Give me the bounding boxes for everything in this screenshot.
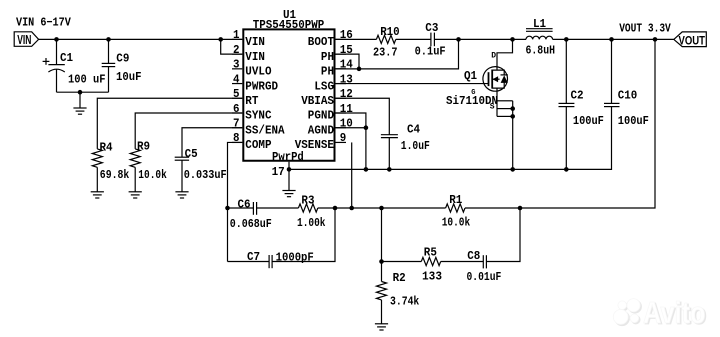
svg-text:R5: R5 [424,245,437,259]
svg-text:100 uF: 100 uF [68,72,106,86]
svg-text:AGND: AGND [308,123,334,137]
svg-text:100uF: 100uF [573,114,604,128]
svg-text:COMP: COMP [245,138,271,152]
svg-text:9: 9 [340,131,347,145]
svg-text:10uF: 10uF [116,70,142,84]
svg-text:1: 1 [233,28,240,42]
svg-text:VIN: VIN [245,50,265,64]
svg-text:C10: C10 [618,89,638,103]
svg-text:5: 5 [233,87,240,101]
svg-text:C6: C6 [238,197,251,211]
svg-text:R9: R9 [137,140,150,154]
svg-text:6.8uH: 6.8uH [526,44,556,58]
svg-text:R4: R4 [100,141,113,155]
svg-text:R10: R10 [380,25,400,39]
svg-text:C2: C2 [571,89,584,103]
svg-text:1.0uF: 1.0uF [401,139,430,153]
svg-text:1000pF: 1000pF [276,250,314,264]
svg-text:PH: PH [321,50,334,64]
svg-text:3: 3 [233,58,240,72]
svg-text:R2: R2 [393,271,406,285]
svg-text:PGND: PGND [308,109,334,123]
svg-text:23.7: 23.7 [373,45,398,59]
svg-text:D: D [491,52,496,61]
svg-text:10.0k: 10.0k [442,215,471,229]
svg-text:R1: R1 [449,193,462,207]
svg-text:VOUT 3.3V: VOUT 3.3V [619,22,671,36]
svg-text:C9: C9 [116,52,129,66]
svg-text:TPS54550PWP: TPS54550PWP [253,18,324,32]
svg-text:C4: C4 [407,123,420,137]
svg-text:16: 16 [340,28,353,42]
svg-text:BOOT: BOOT [308,35,334,49]
svg-text:0.1uF: 0.1uF [415,45,446,59]
svg-text:VBIAS: VBIAS [301,94,334,108]
svg-text:VIN: VIN [245,35,265,49]
svg-text:VIN 6−17V: VIN 6−17V [16,15,71,29]
svg-text:C5: C5 [185,147,198,161]
svg-text:RT: RT [245,94,258,108]
svg-text:1.00k: 1.00k [297,216,326,230]
svg-text:VIN: VIN [17,32,31,47]
svg-text:3.74k: 3.74k [390,295,419,309]
svg-text:0.068uF: 0.068uF [230,217,272,231]
svg-text:PwrPd: PwrPd [272,150,304,164]
svg-text:VOUT: VOUT [679,34,706,48]
svg-text:10.0k: 10.0k [138,168,167,182]
svg-text:C8: C8 [467,249,480,263]
svg-text:SS/ENA: SS/ENA [245,123,285,137]
svg-text:Q1: Q1 [464,69,477,83]
svg-text:0.033uF: 0.033uF [184,168,227,182]
svg-text:2: 2 [233,43,240,57]
svg-text:8: 8 [233,131,240,145]
svg-text:0.01uF: 0.01uF [467,270,502,284]
svg-text:SYNC: SYNC [245,109,271,123]
svg-text:UVLO: UVLO [245,65,271,79]
svg-text:12: 12 [340,87,353,101]
svg-text:10: 10 [340,117,353,131]
svg-text:7: 7 [233,117,240,131]
svg-text:100uF: 100uF [618,114,649,128]
svg-text:4: 4 [233,72,240,86]
svg-text:133: 133 [422,270,442,284]
svg-text:Si7110DN: Si7110DN [446,94,498,108]
svg-text:L1: L1 [533,17,546,31]
svg-text:6: 6 [233,102,240,116]
svg-text:14: 14 [340,58,353,72]
svg-text:15: 15 [340,43,353,57]
svg-text:17: 17 [272,165,285,179]
svg-text:PWRGD: PWRGD [245,79,278,93]
svg-text:LSG: LSG [314,79,334,93]
svg-text:C1: C1 [60,51,73,65]
svg-text:R3: R3 [301,193,314,207]
svg-text:PH: PH [321,65,334,79]
svg-text:C3: C3 [425,21,438,35]
svg-text:Avito: Avito [643,295,706,330]
svg-text:13: 13 [340,72,353,86]
svg-text:C7: C7 [247,250,260,264]
svg-text:11: 11 [340,102,353,116]
svg-text:69.8k: 69.8k [100,168,130,182]
